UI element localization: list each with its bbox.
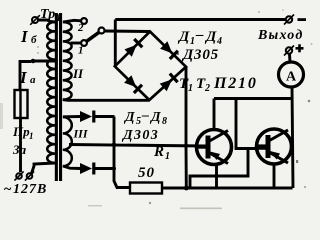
wire winding II top to contact 2 [63, 20, 81, 22]
wire diode join vertical [114, 117, 130, 188]
svg-text:127В: 127В [13, 182, 47, 197]
fuse wire through [19, 90, 21, 118]
transistor T1 base bar [206, 136, 211, 159]
svg-text:II: II [72, 66, 84, 81]
label plus sign [296, 47, 304, 50]
node link crossing T1 [215, 174, 219, 178]
wire ammeter up to plus [288, 54, 291, 62]
label minus sign [298, 18, 307, 21]
diode D1 (bridge top-left) [125, 45, 137, 57]
node R1 junction [184, 186, 189, 191]
svg-text:Д305: Д305 [181, 47, 219, 63]
node base-collector junction [184, 144, 188, 148]
wire bridge left vertex up [114, 20, 117, 67]
diode D5-D6 top row [63, 115, 80, 118]
svg-text:8: 8 [162, 116, 167, 127]
diode D4 (bridge bottom-right) [160, 79, 172, 91]
wire terminal to winding I top [38, 20, 55, 22]
wire bridge right vertex down [185, 67, 188, 188]
svg-text:2: 2 [204, 83, 210, 94]
svg-text:4: 4 [216, 36, 222, 47]
bottom rail [186, 187, 292, 190]
svg-text:5: 5 [136, 116, 141, 127]
output terminal minus [286, 16, 292, 22]
svg-text:Д303: Д303 [121, 128, 159, 143]
svg-text:Д: Д [204, 29, 217, 45]
wire top rail to minus terminal [115, 18, 285, 21]
svg-text:Д: Д [149, 110, 161, 125]
wire tap to winding I [33, 60, 55, 63]
transistor T1 emitter diagonal [210, 131, 229, 142]
switch contact 1 [81, 40, 87, 46]
transistor T1 collector diagonal [210, 153, 229, 164]
wire winding III centre tap to bases [69, 145, 206, 147]
bridge edge wires [115, 32, 186, 101]
svg-text:А: А [286, 70, 297, 85]
svg-text:III: III [73, 127, 89, 141]
svg-text:б: б [31, 34, 37, 46]
transistor T1 circle [197, 130, 232, 165]
diode D2 (bridge top-right) [160, 41, 172, 53]
wire winding II bottom to bridge bottom [63, 98, 150, 102]
wire winding II tap to contact 1 [71, 42, 82, 45]
svg-text:2: 2 [77, 22, 84, 34]
switch common terminal [99, 28, 105, 34]
svg-text:1: 1 [29, 131, 34, 141]
svg-text:–: – [195, 27, 204, 43]
transistor T2 arrow [270, 151, 280, 160]
node link T2 base [246, 147, 250, 151]
svg-text:R: R [153, 144, 164, 160]
transformer Tr1 core [55, 13, 58, 181]
svg-text:50: 50 [138, 165, 155, 181]
svg-text:а: а [30, 74, 36, 86]
terminal primary top [32, 17, 38, 23]
svg-text:1: 1 [56, 13, 61, 24]
output terminal plus [286, 47, 292, 53]
wire T1 top to rail [213, 99, 216, 130]
transformer Tr1 primary winding I [47, 22, 55, 163]
wire switch common to bridge top [105, 30, 151, 33]
diode D3 (bridge bottom-left) [124, 75, 136, 87]
ammeter A [279, 62, 304, 87]
wire T2 base lead [257, 147, 266, 150]
svg-text:Выход: Выход [257, 28, 303, 43]
transistor T2 circle [257, 129, 292, 164]
wire tap to fuse [20, 62, 31, 91]
svg-text:1: 1 [190, 36, 195, 47]
wire ammeter down [292, 87, 293, 188]
wire T2 bottom down [273, 164, 276, 188]
wire input right to winding I bottom [32, 163, 56, 174]
svg-text:–: – [141, 108, 149, 123]
diode D7-D8 bottom row [63, 166, 80, 169]
svg-text:~: ~ [4, 182, 12, 197]
node primary tap [31, 59, 36, 64]
svg-text:Д: Д [177, 29, 190, 45]
transformer Tr1 secondary winding II [63, 22, 72, 100]
input terminal left [16, 173, 22, 179]
svg-text:1: 1 [78, 45, 84, 57]
transistor T1 arrow [210, 152, 220, 161]
wire T1 bottom down [215, 164, 218, 188]
svg-text:1: 1 [165, 151, 170, 162]
svg-text:За: За [12, 142, 27, 157]
transistor T2 collector diagonal [270, 153, 289, 164]
transformer Tr1 secondary winding III [63, 117, 72, 166]
svg-text:1: 1 [188, 83, 193, 94]
node tap-diode crossing [112, 143, 116, 147]
switch lever [86, 32, 99, 41]
fuse Pr1 3A body [15, 90, 28, 118]
svg-text:П210: П210 [213, 75, 258, 92]
transistor T2 emitter diagonal [270, 130, 289, 141]
transistor T2 base bar [266, 135, 271, 158]
wire rail to T2 base [236, 99, 257, 149]
svg-text:Д: Д [123, 110, 135, 125]
resistor R1 body [130, 183, 162, 194]
switch contact 2 [81, 18, 87, 24]
wire link rail to T2 base [190, 150, 248, 188]
wire fuse to input terminal [19, 118, 22, 172]
input terminal right [27, 173, 33, 179]
emitter rail [214, 97, 293, 100]
wire R1 to junction [162, 187, 186, 190]
svg-text:Пр: Пр [12, 124, 30, 139]
